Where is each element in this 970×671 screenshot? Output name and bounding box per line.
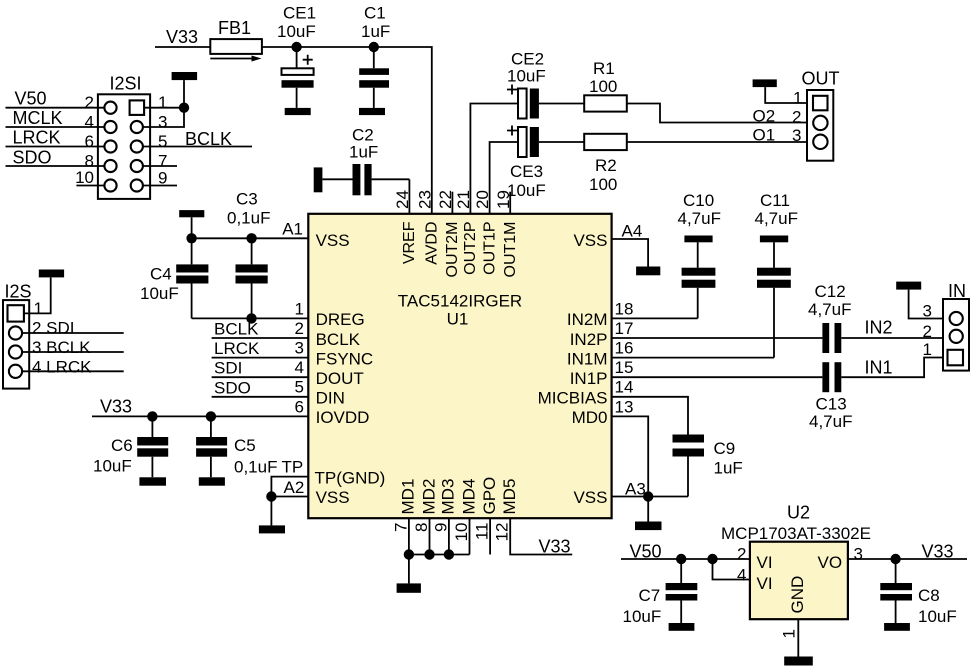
wire IN1M pin 16 to C11 — [612, 357, 774, 359]
ground below CE1 — [285, 108, 311, 115]
wire MD4 pin 10 down — [469, 518, 471, 554]
U1 bottom pin numbers rotated — [391, 523, 511, 542]
svg-text:10uF: 10uF — [918, 607, 957, 626]
svg-text:0,1uF: 0,1uF — [227, 209, 270, 228]
resistor R1 — [584, 59, 627, 112]
capacitor C11 — [755, 191, 798, 358]
svg-text:4,7uF: 4,7uF — [808, 300, 851, 319]
svg-text:MCLK: MCLK — [13, 108, 63, 128]
svg-text:V50: V50 — [15, 88, 47, 108]
svg-text:V33: V33 — [100, 397, 132, 417]
svg-text:15: 15 — [615, 358, 634, 377]
ground below A2 — [259, 525, 285, 533]
U1 right pin numbers — [615, 300, 634, 417]
svg-text:FSYNC: FSYNC — [316, 349, 374, 368]
svg-text:DIN: DIN — [316, 389, 345, 408]
wire branch to VI pin 4 — [713, 559, 750, 580]
svg-text:V33: V33 — [922, 541, 954, 561]
svg-text:C3: C3 — [236, 190, 258, 209]
wire IN2P pin 17 to C12 — [612, 337, 823, 339]
svg-text:SDI: SDI — [214, 359, 242, 378]
svg-text:2: 2 — [737, 545, 746, 564]
svg-text:6: 6 — [295, 398, 304, 417]
svg-text:7: 7 — [391, 523, 410, 532]
wire pin 5 — [212, 396, 309, 398]
capacitor C6 — [93, 416, 168, 477]
wire V50 to U2 VI pin 2 — [621, 558, 750, 560]
ground above I2S pin 1 — [39, 270, 64, 278]
connector I2SI — [75, 74, 167, 199]
wire bottom bus pins 7-10 — [409, 554, 470, 556]
svg-text:5: 5 — [158, 132, 167, 151]
wire MD2 pin 8 down — [429, 518, 431, 554]
junction CE1/V33 — [291, 42, 301, 52]
svg-text:MD1: MD1 — [399, 479, 418, 515]
junction C3/DREG — [246, 313, 256, 323]
ground below C6 — [139, 477, 166, 485]
svg-text:AVDD: AVDD — [424, 222, 441, 265]
svg-text:O2: O2 — [753, 107, 776, 126]
wire DREG pin 1 — [192, 317, 309, 319]
junction I2SI pin1/gnd — [179, 103, 189, 113]
svg-text:MICBIAS: MICBIAS — [538, 389, 608, 408]
svg-text:18: 18 — [615, 300, 634, 319]
wire V33 rail to AVDD pin 23 — [155, 47, 432, 214]
op-amp U1 TAC5142IRGER body — [308, 214, 611, 518]
capacitor C7 — [623, 559, 698, 626]
svg-text:16: 16 — [615, 339, 634, 358]
ground above IN pin 3 — [896, 282, 921, 290]
wire U2 VO pin 3 to V33 — [848, 558, 967, 560]
svg-text:MD4: MD4 — [459, 479, 478, 515]
svg-text:C6: C6 — [111, 436, 133, 455]
svg-text:A2: A2 — [284, 478, 305, 497]
svg-text:10uF: 10uF — [277, 22, 316, 41]
wire I2S pin 3 — [22, 351, 123, 353]
svg-text:C10: C10 — [683, 191, 714, 210]
capacitor C10 — [678, 191, 721, 318]
svg-text:TP(GND): TP(GND) — [315, 468, 386, 487]
capacitor C3 — [227, 190, 270, 319]
svg-text:MD5: MD5 — [500, 479, 519, 515]
wire VSS A2 — [271, 496, 308, 498]
svg-text:IN2M: IN2M — [567, 310, 608, 329]
wire I2SI pin 9 stub — [143, 185, 177, 187]
wire TP(GND) pin — [271, 477, 308, 497]
U1 left pin names — [315, 231, 386, 507]
ground below C5 — [199, 477, 225, 485]
ground below U2 — [784, 657, 813, 666]
svg-text:O1: O1 — [753, 126, 776, 145]
svg-text:C8: C8 — [918, 586, 940, 605]
wire OUT1P pin 20 to CE3 — [490, 142, 518, 214]
connector OUT — [792, 69, 839, 161]
ground below A3 — [635, 522, 662, 531]
svg-text:OUT2M: OUT2M — [444, 222, 461, 278]
U1 left pin numbers — [295, 300, 304, 417]
svg-text:CE3: CE3 — [510, 162, 543, 181]
junction A3 — [643, 491, 653, 501]
svg-text:10uF: 10uF — [507, 67, 546, 86]
junction pin 9 — [444, 549, 454, 559]
svg-text:1uF: 1uF — [361, 22, 390, 41]
ground below A4 — [636, 267, 660, 276]
svg-text:DOUT: DOUT — [316, 369, 364, 388]
svg-text:VSS: VSS — [573, 231, 607, 250]
svg-text:1uF: 1uF — [714, 459, 743, 478]
junction C1/V33 — [369, 42, 379, 52]
svg-text:17: 17 — [615, 319, 634, 338]
svg-text:8: 8 — [412, 523, 431, 532]
capacitor CE2 — [507, 50, 584, 119]
svg-text:A1: A1 — [282, 220, 303, 239]
capacitor C2 — [322, 126, 409, 196]
svg-text:IN1P: IN1P — [570, 369, 608, 388]
ground below C1 — [359, 108, 385, 115]
svg-text:4 LRCK: 4 LRCK — [32, 357, 92, 376]
svg-text:LRCK: LRCK — [13, 127, 61, 147]
connector I2S — [3, 282, 43, 389]
wire pin 4 — [212, 376, 309, 378]
svg-text:BCLK: BCLK — [214, 320, 259, 339]
wire down to ground — [270, 497, 272, 526]
U1 bottom pin names rotated — [399, 477, 519, 515]
wire pin 2 — [212, 337, 309, 339]
svg-text:TP: TP — [282, 458, 304, 477]
wire VSS A3 — [612, 496, 688, 498]
svg-text:VI: VI — [757, 574, 773, 593]
wire VSS A4 to ground — [612, 239, 649, 267]
svg-text:C1: C1 — [364, 4, 386, 23]
junction A1/C4 — [186, 233, 196, 243]
svg-text:2 SDI: 2 SDI — [32, 319, 75, 338]
wire MD5 pin 12 to V33 — [510, 518, 572, 554]
ground above A1 node — [179, 210, 204, 217]
svg-text:3 BCLK: 3 BCLK — [32, 338, 91, 357]
svg-text:IN2: IN2 — [865, 317, 893, 337]
wire VREF pin 24 to C2 — [408, 179, 410, 214]
capacitor C8 — [880, 559, 956, 626]
wire I2SI pin 10 stub — [76, 185, 104, 187]
connector IN — [923, 281, 969, 371]
svg-text:4,7uF: 4,7uF — [755, 209, 798, 228]
wire SDO to I2SI pin 8 — [6, 165, 105, 167]
junction A1/C3 — [246, 233, 256, 243]
svg-text:IN2P: IN2P — [570, 330, 608, 349]
ground below C8 — [884, 623, 910, 631]
svg-text:0,1uF: 0,1uF — [234, 458, 277, 477]
svg-text:A4: A4 — [622, 221, 643, 240]
svg-text:100: 100 — [589, 175, 617, 194]
wire GPO pin 11 stub — [489, 518, 491, 554]
junction VO/C8 — [890, 554, 900, 564]
resistor R2 — [584, 134, 627, 194]
svg-text:9: 9 — [431, 523, 450, 532]
wire R1 to OUT pin 2 — [627, 104, 807, 123]
svg-text:4: 4 — [85, 113, 94, 132]
svg-text:C13: C13 — [816, 395, 847, 414]
wire A3 to ground — [647, 497, 649, 522]
svg-text:BCLK: BCLK — [316, 330, 361, 349]
svg-text:2: 2 — [85, 93, 94, 112]
svg-text:GND: GND — [788, 576, 807, 614]
svg-text:VI: VI — [757, 553, 773, 572]
wire V50 to I2SI pin 2 — [6, 107, 105, 109]
capacitor CE1 — [277, 4, 316, 108]
capacitor C13 — [809, 362, 852, 431]
svg-text:C4: C4 — [150, 265, 172, 284]
svg-text:MCP1703AT-3302E: MCP1703AT-3302E — [721, 524, 871, 543]
ground below pin 7 — [397, 583, 421, 592]
wire C12 to IN pin 2 — [841, 337, 949, 339]
junction V33/C6 — [147, 411, 157, 421]
svg-text:23: 23 — [415, 190, 434, 209]
svg-text:MD3: MD3 — [439, 479, 458, 515]
svg-text:VSS: VSS — [573, 488, 607, 507]
svg-text:SDO: SDO — [13, 147, 52, 167]
svg-text:C9: C9 — [714, 439, 736, 458]
svg-text:MD0: MD0 — [572, 408, 608, 427]
svg-text:IOVDD: IOVDD — [316, 408, 370, 427]
wire I2S pin 1 to ground — [24, 278, 51, 314]
svg-text:SDO: SDO — [214, 379, 251, 398]
wire OUT1M pin 19 stub — [509, 192, 511, 214]
svg-text:4,7uF: 4,7uF — [809, 412, 852, 431]
capacitor C12 — [808, 282, 851, 353]
svg-text:V33: V33 — [166, 27, 198, 47]
svg-text:TAC5142IRGER: TAC5142IRGER — [398, 292, 522, 311]
wire R2 to OUT pin 3 — [627, 141, 807, 143]
wire ground to IN pin 3 — [909, 290, 950, 319]
svg-text:3: 3 — [792, 126, 801, 145]
svg-text:10: 10 — [452, 523, 471, 542]
svg-text:DREG: DREG — [316, 310, 365, 329]
svg-text:10uF: 10uF — [507, 181, 546, 200]
wire IN2M pin 18 to C10 — [612, 317, 698, 319]
svg-text:R1: R1 — [593, 59, 615, 78]
svg-text:13: 13 — [615, 398, 634, 417]
svg-text:C5: C5 — [234, 436, 256, 455]
svg-text:LRCK: LRCK — [214, 339, 260, 358]
capacitor C1 — [359, 4, 390, 108]
svg-text:VREF: VREF — [401, 221, 418, 264]
wire MICBIAS pin 14 to C9 — [612, 397, 688, 435]
svg-text:4: 4 — [737, 566, 746, 585]
wire IN1P pin 15 to C13 — [612, 376, 823, 378]
svg-text:U1: U1 — [447, 310, 469, 329]
svg-text:R2: R2 — [595, 156, 617, 175]
U1 top pin names rotated — [401, 221, 519, 277]
svg-text:3: 3 — [158, 113, 167, 132]
junction V33/C5 — [206, 411, 216, 421]
svg-text:FB1: FB1 — [218, 18, 251, 38]
U1 top pin numbers rotated — [393, 190, 513, 209]
svg-text:V33: V33 — [539, 537, 571, 557]
transistor U2 MCP1703AT-3302E body — [721, 503, 871, 620]
svg-text:VO: VO — [818, 553, 843, 572]
svg-text:I2S: I2S — [5, 282, 32, 302]
wire V33 to IOVDD pin 6 — [92, 415, 308, 417]
wire pin 3 — [212, 357, 309, 359]
wire I2SI pin 1 to ground and pin 3 — [143, 80, 184, 127]
svg-text:OUT1P: OUT1P — [481, 222, 498, 275]
svg-text:4,7uF: 4,7uF — [678, 209, 721, 228]
wire MD3 pin 9 down — [448, 518, 450, 554]
wire U2 GND pin 1 to ground — [797, 619, 799, 656]
svg-text:U2: U2 — [787, 503, 810, 523]
svg-text:14: 14 — [615, 378, 634, 397]
svg-text:10: 10 — [75, 168, 94, 187]
svg-text:MD2: MD2 — [419, 479, 438, 515]
wire ground to OUT pin 1 — [765, 87, 807, 103]
junction pin 7 — [404, 549, 414, 559]
wire bus to ground — [408, 555, 410, 584]
U1 right pin names — [538, 231, 608, 507]
wire C13 to IN pin 1 — [841, 358, 948, 378]
wire I2S pin 4 — [22, 370, 123, 372]
svg-text:C11: C11 — [760, 191, 790, 210]
svg-text:3: 3 — [295, 339, 304, 358]
svg-text:C7: C7 — [639, 586, 661, 605]
svg-text:CE1: CE1 — [283, 4, 316, 23]
wire I2SI pin 7 stub — [143, 165, 177, 167]
svg-text:2: 2 — [792, 107, 801, 126]
svg-text:GPO: GPO — [480, 477, 499, 515]
svg-text:11: 11 — [473, 523, 492, 541]
svg-text:6: 6 — [85, 132, 94, 151]
svg-text:10uF: 10uF — [140, 284, 179, 303]
wire LRCK to I2SI pin 6 — [6, 146, 105, 148]
wire OUT2P pin 21 to CE2 — [470, 104, 518, 214]
svg-text:1: 1 — [158, 93, 167, 112]
junction TP/A2/gnd — [266, 491, 276, 501]
svg-text:2: 2 — [923, 322, 932, 341]
ground below C7 — [669, 623, 695, 631]
capacitor C4 — [140, 238, 208, 318]
wire I2S pin 2 — [22, 332, 123, 334]
svg-text:OUT: OUT — [802, 69, 840, 89]
svg-text:1uF: 1uF — [349, 143, 378, 162]
svg-text:I2SI: I2SI — [110, 74, 142, 94]
svg-text:C12: C12 — [815, 282, 846, 301]
svg-text:1: 1 — [793, 88, 802, 107]
svg-text:OUT2P: OUT2P — [462, 222, 479, 275]
wire MD1 pin 7 down — [408, 518, 410, 554]
capacitor C9 — [673, 435, 743, 497]
svg-text:3: 3 — [923, 302, 932, 321]
svg-text:10uF: 10uF — [623, 607, 662, 626]
svg-text:10uF: 10uF — [93, 457, 132, 476]
svg-text:4: 4 — [295, 358, 304, 377]
svg-text:1: 1 — [923, 340, 932, 359]
capacitor CE3 — [507, 126, 584, 201]
junction V50/pin4 — [707, 554, 717, 564]
ferrite bead FB1 — [210, 18, 262, 62]
svg-text:5: 5 — [295, 378, 304, 397]
svg-text:VSS: VSS — [316, 231, 350, 250]
svg-text:1: 1 — [34, 299, 43, 318]
junction V50/C7 — [676, 554, 686, 564]
wire gnd bar down to A1 rail — [191, 217, 193, 238]
svg-text:IN1M: IN1M — [567, 349, 608, 368]
wire MD0 pin 13 down to A3 — [612, 416, 649, 496]
wire OUT2M pin 22 stub — [451, 192, 453, 214]
svg-text:VSS: VSS — [316, 488, 350, 507]
svg-text:12: 12 — [493, 523, 512, 542]
svg-text:OUT1M: OUT1M — [502, 222, 519, 278]
svg-text:IN1: IN1 — [865, 357, 893, 377]
svg-text:1: 1 — [780, 629, 799, 638]
wire A1 VSS rail — [192, 237, 309, 239]
junction pin 8 — [424, 549, 434, 559]
ground above I2SI pin 1 — [172, 72, 198, 80]
svg-text:2: 2 — [295, 319, 304, 338]
ground left of C2 — [314, 167, 323, 192]
capacitor C5 — [196, 416, 277, 477]
ground above OUT pin 1 — [753, 79, 777, 87]
svg-text:100: 100 — [589, 77, 617, 96]
svg-text:1: 1 — [295, 300, 304, 319]
wire I2SI pin 5 BCLK — [143, 146, 252, 148]
wire MCLK to I2SI pin 4 — [6, 126, 105, 128]
svg-text:3: 3 — [854, 545, 863, 564]
